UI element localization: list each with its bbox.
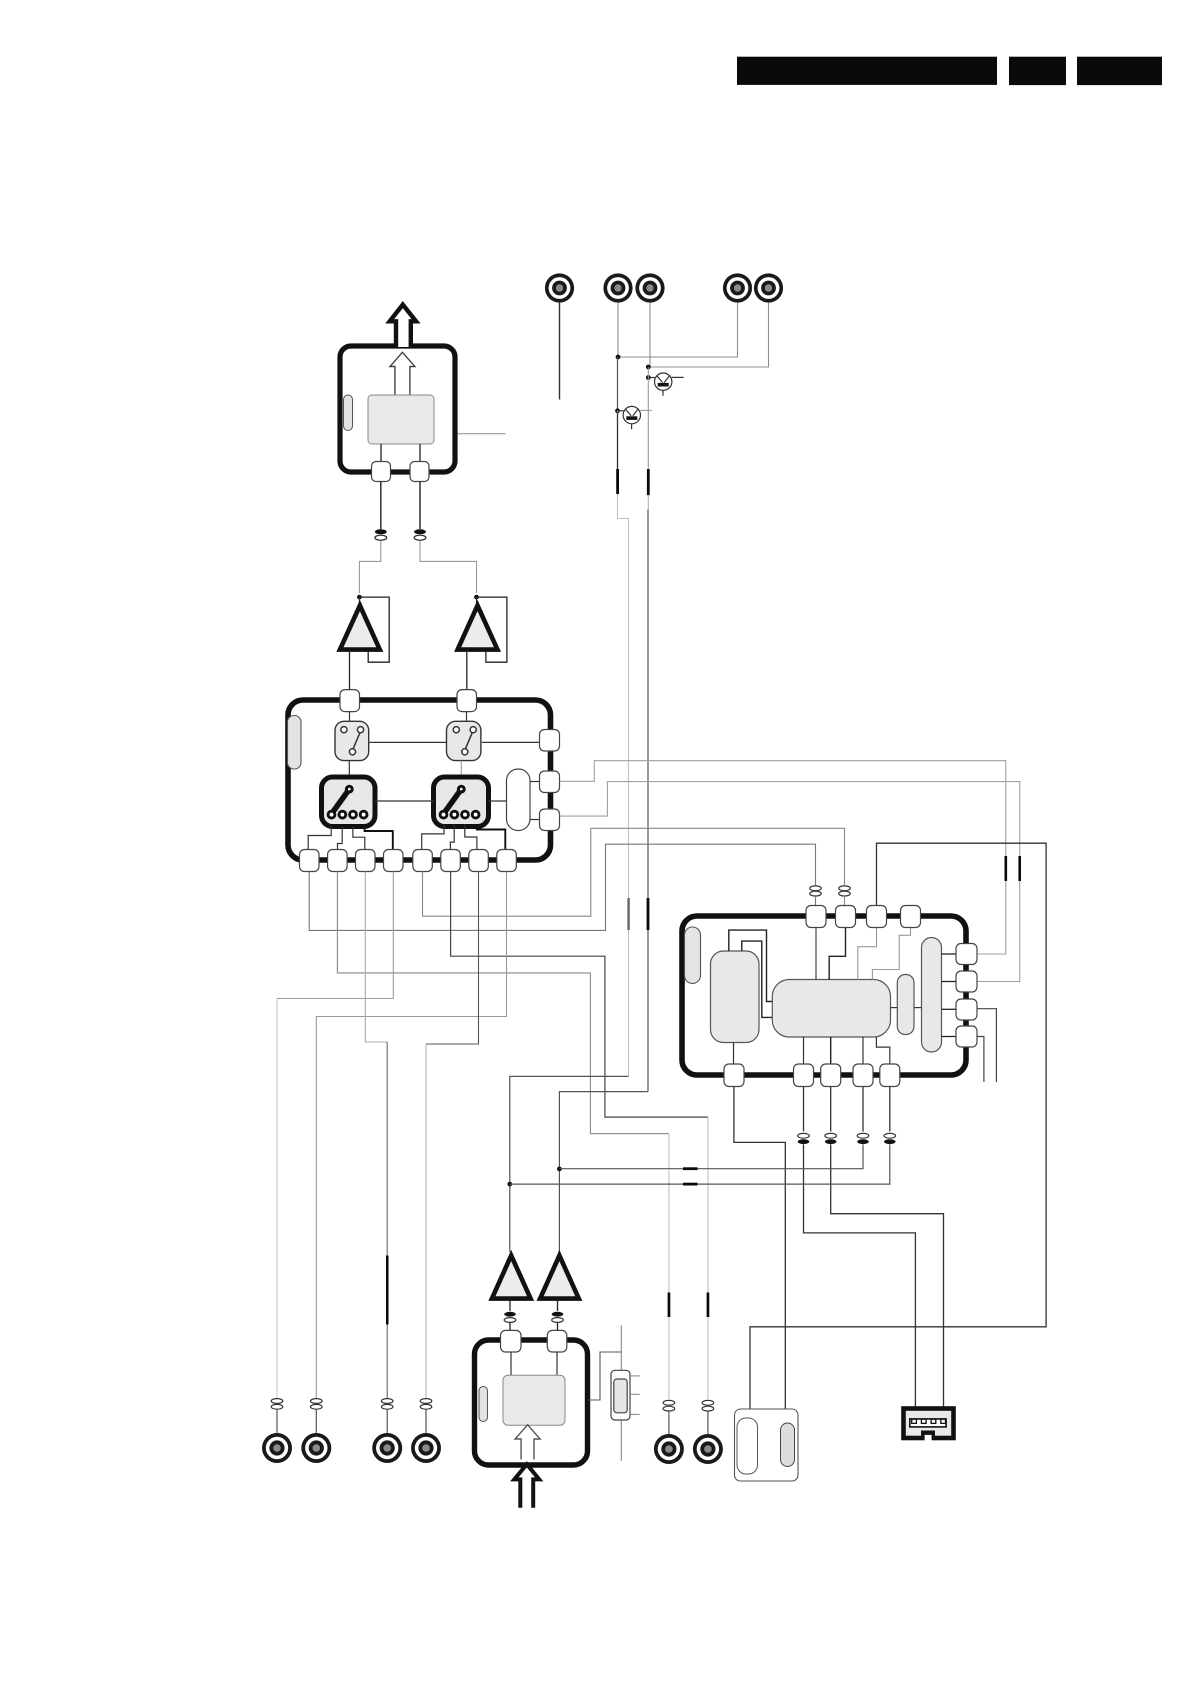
cable marker on R1 feed [1005, 856, 1008, 881]
crystal side stub 3 [630, 1413, 640, 1415]
wire: U1 pin B to U2 pin R1 [560, 761, 1006, 954]
ferrite bead on b3 wire [825, 1133, 837, 1144]
wire: bead to connector JB [707, 1411, 709, 1434]
wire: J1 stub down [559, 303, 561, 400]
U3 left tab [479, 1387, 488, 1422]
arrow into tuner core (inner, thin) [515, 1425, 540, 1460]
wire: U1 pin C to U2 pin R2 [560, 782, 1020, 982]
wire: bead L1 to amp A1 input [359, 541, 380, 594]
wire: left box to bottom pin b1 [733, 1043, 735, 1065]
U1 bottom pin 6 [441, 850, 461, 872]
ferrite bead on JB wire [702, 1400, 714, 1411]
ferrite bead on b5 wire [884, 1133, 896, 1144]
U2 bottom pin b5 [880, 1064, 900, 1087]
wire: bead to connector JA [668, 1411, 670, 1434]
wire: output pill to R3 [942, 1008, 957, 1010]
wire: t3 into core [858, 928, 877, 980]
ferrite bead on t1 feed [810, 886, 822, 896]
crystal side stub 1 [630, 1375, 640, 1377]
wire: R4 stub [977, 1037, 984, 1083]
U1 right pin B [540, 771, 560, 793]
connector JB [693, 1434, 723, 1464]
wire: buffer to right pin B [530, 781, 540, 783]
connector JC [262, 1433, 292, 1463]
wire: U1 bottom pin6 to AV connector JB [451, 872, 708, 1118]
wire: b3 down with bead to 4pin connector right [830, 1087, 832, 1132]
redacted title bar 3 [1077, 57, 1162, 85]
speaker inner unit [368, 395, 434, 444]
wire: bead to t2 [844, 896, 846, 906]
wire: buffer to right pin C [530, 819, 540, 821]
wire: t3 to headphone jack (long loop) [750, 843, 1046, 1410]
wire: dot to amp A1 apex [358, 597, 360, 606]
wire: V2 tap4 to bottom pin 8 [477, 825, 506, 851]
U1 bottom pin 4 [384, 850, 404, 872]
wire: U1 bottom pin5 to U2 top pin t2 [423, 828, 845, 916]
wire: output pill to R1 [942, 953, 957, 955]
U2 bottom pin b3 [821, 1064, 841, 1087]
wire: F2 output [557, 1299, 559, 1311]
U2 internal: output pill [922, 938, 942, 1053]
wire: A2 output to middle block pin [466, 650, 468, 690]
wire: tuner to crystal X1 [588, 1352, 622, 1400]
arrow into tuner (bottom, thick) [514, 1464, 539, 1508]
feedback loop of amp A2 [477, 597, 507, 662]
U3 core box [503, 1375, 565, 1425]
wire: pin P2 down [419, 482, 421, 530]
U2 right pin R2 [956, 971, 977, 992]
wire: pin P1 down [380, 482, 382, 530]
feedback loop of amp A1 [359, 597, 389, 662]
wire: U1 bottom pin3 to connector JE [365, 872, 387, 1043]
wire: V1 tap2 to bottom pin 2 [338, 827, 343, 851]
U1 right pin C [540, 809, 560, 831]
wire: F1 output [509, 1299, 511, 1311]
U1 bottom pin 5 [413, 850, 433, 872]
wire: V1 to V2 [375, 800, 434, 802]
wire: U1 bottom pin4 to connector JC [277, 872, 393, 999]
ferrite bead on JF wire [420, 1399, 432, 1410]
ferrite bead on b4 wire [857, 1133, 869, 1144]
transistor Q2 [623, 406, 652, 429]
wire: t4 into core [872, 928, 910, 980]
wire: R3 stub [977, 1009, 996, 1082]
tuner block U3 [475, 1340, 588, 1465]
connector JD [301, 1433, 331, 1463]
wire: V1 tap3 to bottom pin 3 [353, 827, 365, 851]
wire: base of Q1 [648, 377, 655, 379]
wire: bead to connector JC [276, 1409, 278, 1433]
cable marker on b5 net [683, 1183, 698, 1186]
U1 top pin 2 [457, 690, 477, 712]
wire: bead to t1 [815, 896, 817, 906]
wire: b1 to headphone jack right [734, 1087, 785, 1411]
redacted title bar 1 [737, 57, 997, 85]
ferrite bead on JC wire [271, 1399, 283, 1410]
op-amp F1 [492, 1256, 531, 1299]
buffer stage (stadium) [507, 769, 531, 831]
U2 internal: stage pill [897, 975, 914, 1035]
cable marker on R2 feed [1018, 856, 1021, 881]
ferrite bead on JE wire [381, 1399, 393, 1410]
node N2 junction dot [646, 365, 651, 370]
wire: stage pill to output pill [914, 1007, 922, 1009]
wire: right audio net to IF amp F2 [559, 1092, 648, 1252]
wire: inner unit to pin P2 [419, 444, 421, 462]
U1 bottom pin 2 [328, 850, 348, 872]
node dot on F2 net [557, 1167, 562, 1172]
volume control V2 [434, 777, 489, 827]
U2 internal wire: left box to core (inner loop) [742, 941, 773, 1017]
wire: U1 bottom pin2 to AV connector JA [337, 872, 669, 1134]
crystal side stub 2 [630, 1393, 640, 1395]
ferrite bead on F1 output [504, 1312, 516, 1323]
U2 right pin R4 [956, 1026, 977, 1047]
connector J2 [603, 273, 632, 302]
wire: U1 bottom pin7 to connector JF [426, 872, 479, 1045]
wire: A1 output to middle block pin [349, 650, 351, 690]
wire: S1 to volume V1 [348, 761, 350, 777]
wire: core to bottom pin b3 [830, 1037, 832, 1064]
wire: V2 tap1 to bottom pin 5 [422, 825, 444, 851]
op-amp A2 [458, 606, 498, 650]
cable marker on x=648 wire [647, 898, 650, 930]
node A2 input dot [474, 595, 479, 600]
wire: V2 to buffer [489, 800, 507, 802]
U1 left tab [288, 716, 302, 770]
wire: pin1 into tuner core [510, 1352, 512, 1375]
connector J3 [635, 273, 664, 302]
wire: V1 tap1 to bottom pin 1 [308, 827, 331, 851]
wire: b4 down with bead to F2 net [862, 1087, 864, 1132]
node N1 junction dot [616, 355, 621, 360]
connector JF [411, 1433, 441, 1463]
wire: V1 tap4 to bottom pin 4 [365, 827, 393, 851]
J6 left contact [737, 1418, 758, 1474]
wire: output pill to R4 [942, 1036, 957, 1038]
U2 internal: core box [772, 980, 890, 1038]
wire: core to bottom pin b4 [862, 1037, 864, 1064]
op-amp F2 [540, 1256, 579, 1299]
wire: U1 bottom pin8 to connector JD [316, 872, 506, 1399]
connector J1 [545, 273, 574, 302]
wire: top pin2 to switch S2 [466, 712, 468, 722]
connector J5 [754, 273, 783, 302]
volume control V1 [322, 777, 376, 827]
wire: output pill to R2 [942, 981, 957, 983]
U2 internal: left stage box [711, 951, 760, 1043]
wire: S2 to right pin A [482, 741, 540, 743]
speaker block LS1 [340, 346, 455, 472]
ferrite bead on JA wire [663, 1400, 675, 1411]
wire: node N2 down long [647, 367, 649, 470]
wire: b2 down with bead to 4pin connector left [803, 1087, 805, 1132]
wire: core to bottom pin b5 [876, 1037, 889, 1064]
node N3 junction dot (Q2 base) [615, 408, 620, 413]
arrow (inner, thin) [390, 352, 415, 395]
wire: bead to connector JF [425, 1409, 427, 1433]
wire: J3 down to node N2 [649, 303, 651, 368]
wire: U1 bottom pin1 to U2 top pin t1 [309, 844, 815, 930]
connector JA [654, 1434, 684, 1464]
ferrite bead on t2 feed [839, 886, 851, 896]
wire: bead L2 to amp A2 input [420, 541, 477, 594]
wire: t1 into core [815, 928, 817, 980]
stub wire right of speaker block [458, 433, 506, 435]
ferrite bead L1 [375, 529, 387, 540]
U2 internal wire: left box to core (outer loop) [729, 930, 773, 1001]
connector JE [372, 1433, 402, 1463]
cable marker on JB wire [707, 1293, 710, 1318]
wire: J5 down and left to node N2 [648, 303, 768, 368]
cable marker on N3 wire [616, 469, 619, 494]
ferrite bead on F2 output [552, 1312, 564, 1323]
audio switch IC U1 (middle block) [288, 700, 551, 860]
U2 top pin t2 [836, 906, 856, 928]
U1 bottom pin 1 [300, 850, 320, 872]
cable marker on b4 net [683, 1167, 698, 1170]
op-amp A1 [340, 606, 380, 650]
ferrite bead L2 [414, 529, 426, 540]
wire: S2 to volume V2 [460, 761, 462, 777]
U2 top pin t4 [901, 906, 921, 928]
node N4 junction dot (Q1 base) [646, 375, 651, 380]
wire: J2 down to node N1 [617, 303, 619, 358]
ferrite bead on JD wire [311, 1399, 323, 1410]
transistor Q1 [655, 373, 684, 396]
U2 bottom pin b2 [794, 1064, 814, 1087]
wire: J4 down and left to node N1 [618, 303, 738, 358]
wire: top pin1 to switch S1 [349, 712, 351, 722]
pin P2 of speaker block [410, 462, 429, 482]
U2 right pin R3 [956, 999, 977, 1020]
U2 left tab [685, 927, 701, 984]
wire: dot to amp A2 apex [476, 597, 478, 606]
U1 top pin 1 [340, 690, 360, 712]
switch S1 [335, 721, 369, 760]
wire: t2 into core [829, 928, 845, 980]
4-pin connector J7 [904, 1409, 954, 1442]
U2 bottom pin b1 [724, 1064, 744, 1087]
cable marker on JE wire [386, 1256, 389, 1325]
headphone jack J6 [735, 1409, 799, 1481]
crystal X1 body [611, 1370, 630, 1420]
wire: node N1 down to Q2 base node [617, 357, 619, 411]
signal processor U2 (right block) [682, 916, 966, 1075]
U3 top pin 1 [501, 1330, 522, 1352]
wire: S1 to S2 [370, 741, 448, 743]
connector J4 [723, 273, 752, 302]
node dot on F1 net [507, 1182, 512, 1187]
U2 bottom pin b4 [853, 1064, 873, 1087]
wire: base of Q2 [618, 410, 624, 412]
wire: inner unit to pin P1 [380, 444, 382, 462]
wire: V2 tap2 to bottom pin 6 [450, 825, 454, 851]
cable marker on JA wire [668, 1293, 671, 1318]
U2 right pin R1 [956, 944, 977, 965]
ferrite bead on b2 wire [798, 1133, 810, 1144]
node A1 input dot [357, 595, 362, 600]
wire: node N3 down with cable mark, jog right [618, 411, 629, 1077]
wire: V2 tap3 to bottom pin 7 [465, 825, 477, 851]
U1 right pin A [540, 730, 560, 752]
J6 right contact [781, 1423, 795, 1467]
U1 bottom pin 3 [356, 850, 376, 872]
pin P1 of speaker block [372, 462, 391, 482]
wire: core to bottom pin b2 [803, 1037, 805, 1064]
crystal X1 vertical line [620, 1325, 622, 1460]
arrow out (top, thick) [390, 305, 416, 347]
redacted title bar 2 [1009, 57, 1066, 85]
wire: bead to connector JD [315, 1409, 317, 1433]
U1 bottom pin 8 [497, 850, 517, 872]
U2 top pin t3 [867, 906, 887, 928]
wire: bead to tuner pin 1 [509, 1323, 511, 1331]
switch S2 [447, 721, 481, 760]
U2 top pin t1 [806, 906, 826, 928]
U3 top pin 2 [547, 1330, 567, 1352]
wire: b5 down with bead to F1 net [889, 1087, 891, 1132]
wire: bead to connector JE [386, 1409, 388, 1433]
wire: core to stage pill [891, 1007, 898, 1009]
U1 bottom pin 7 [469, 850, 489, 872]
wire: left audio net to IF amp F1 [510, 1076, 629, 1252]
wire: pin2 into tuner core [556, 1352, 558, 1375]
wire: bead to tuner pin 2 [557, 1323, 559, 1331]
speaker block side tab [344, 395, 353, 431]
cable marker on x=628.5 wire [627, 898, 629, 930]
